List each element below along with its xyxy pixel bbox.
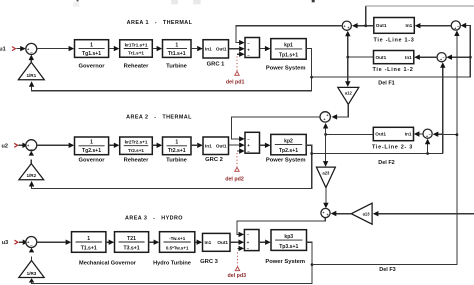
svg-text:Governor: Governor bbox=[78, 63, 105, 69]
gain a23 bbox=[316, 167, 335, 188]
GRC 2 subsystem block bbox=[203, 137, 229, 155]
svg-text:+: + bbox=[440, 58, 442, 62]
wire 1/R1 to sum S1 bbox=[30, 59, 32, 62]
wire GRC3 to sum3 (+) bbox=[230, 241, 239, 243]
svg-text:Power System: Power System bbox=[266, 158, 306, 164]
wire Turbine2 to GRC2 bbox=[191, 144, 197, 146]
svg-text:GRC 2: GRC 2 bbox=[205, 157, 223, 163]
svg-text:a23: a23 bbox=[322, 170, 330, 175]
svg-text:del pd3: del pd3 bbox=[228, 273, 247, 279]
wire sum T23 to Tie-Line 2-3 In1 bbox=[418, 133, 423, 135]
wire PS2 output down to frequency feedback bbox=[32, 145, 312, 188]
gain 1/R3 bbox=[19, 261, 44, 278]
svg-text:0.5*Tw.s+1: 0.5*Tw.s+1 bbox=[166, 246, 189, 251]
wire PS3 output down to frequency feedback bbox=[32, 242, 312, 283]
del pd3 annotation dotted line bbox=[237, 252, 239, 266]
svg-text:1/R3: 1/R3 bbox=[27, 271, 37, 276]
svg-text:Tg1.s+1: Tg1.s+1 bbox=[82, 51, 101, 57]
sum block SB1 bbox=[245, 38, 260, 58]
svg-text:T3.s+1: T3.s+1 bbox=[124, 246, 140, 252]
svg-text:a12: a12 bbox=[345, 91, 353, 96]
svg-text:kp2: kp2 bbox=[284, 138, 293, 144]
svg-text:Out1: Out1 bbox=[376, 55, 387, 60]
svg-text:u1: u1 bbox=[0, 47, 6, 53]
wire Tie-Line 1-3 Out1 to sum A1 bbox=[356, 25, 374, 27]
inport u3 bbox=[2, 240, 29, 247]
svg-text:−: − bbox=[443, 56, 445, 60]
wire Reheater1 to Turbine1 bbox=[152, 48, 157, 50]
load disturbance input wire 3 (-) bbox=[238, 247, 240, 249]
svg-text:T21: T21 bbox=[127, 236, 136, 242]
wire 1/R3 to sum S3 bbox=[31, 256, 33, 260]
power system block (kp3/Tp3.s+1) bbox=[271, 230, 307, 251]
wire HydroTurbine to GRC3 bbox=[195, 241, 197, 243]
hydro turbine block (-Tw.s+1/0.5*Tw.s+1) bbox=[160, 232, 195, 253]
wire GRC1 to sum1 (+) bbox=[229, 48, 240, 50]
svg-text:Del F3: Del F3 bbox=[379, 267, 396, 273]
sum T13 (tie-line 1-3) bbox=[451, 21, 460, 30]
tie-line 1-2 block bbox=[374, 51, 414, 64]
svg-text:Turbine: Turbine bbox=[166, 157, 188, 163]
svg-text:+: + bbox=[322, 211, 324, 215]
svg-text:+: + bbox=[326, 114, 328, 118]
wire Governor2 to Reheater2 bbox=[109, 144, 114, 146]
svg-text:del pd1: del pd1 bbox=[226, 79, 245, 85]
cropped caption speck 2 bbox=[171, 0, 178, 4]
wire S3 to MechGovernor bbox=[37, 241, 66, 243]
junction tie13 output tap bbox=[364, 24, 367, 27]
svg-text:Power System: Power System bbox=[265, 259, 305, 265]
wire deltaF3 right and up the right column bbox=[312, 34, 457, 265]
svg-text:Del F1: Del F1 bbox=[378, 81, 395, 87]
gain 1/R2 bbox=[19, 164, 44, 180]
svg-text:+: + bbox=[247, 143, 250, 148]
svg-text:Reheater: Reheater bbox=[124, 63, 150, 69]
svg-text:In1: In1 bbox=[205, 47, 212, 52]
inport u1 bbox=[0, 46, 26, 53]
wire deltaF2 up into sum T12 bottom bbox=[442, 66, 444, 153]
gain a12 bbox=[338, 87, 359, 104]
svg-text:Turbine: Turbine bbox=[166, 63, 188, 69]
svg-text:In1: In1 bbox=[205, 240, 212, 245]
svg-text:Governor: Governor bbox=[78, 157, 105, 163]
wire a23 down to sum A3 bbox=[325, 188, 327, 205]
sum block SB2 bbox=[245, 132, 260, 153]
power system block (kp2/Tp2.s+1) bbox=[271, 134, 306, 154]
svg-text:In1: In1 bbox=[405, 55, 412, 60]
svg-text:Tp2.s+1: Tp2.s+1 bbox=[279, 148, 298, 154]
hydro compensator block (T21/T3.s+1) bbox=[115, 232, 149, 253]
svg-text:1: 1 bbox=[90, 140, 93, 146]
mechanical governor block (1/T1.s+1) bbox=[72, 232, 106, 253]
governor block (1/Tg1.s+1) bbox=[75, 40, 109, 58]
wire tie12 branch down to gain a12 bbox=[347, 57, 349, 83]
inport u2 bbox=[1, 143, 28, 150]
reheater block (kr1Tr1.s+1/Tr1.s+1) bbox=[120, 40, 153, 57]
svg-text:−: − bbox=[457, 24, 459, 28]
svg-text:+: + bbox=[323, 118, 325, 122]
svg-text:Tt2.s+1: Tt2.s+1 bbox=[168, 148, 186, 154]
wire SB2 to Power System 2 bbox=[260, 144, 265, 146]
svg-text:AREA 1 - THERMAL: AREA 1 - THERMAL bbox=[127, 20, 193, 26]
junction tie12 branch bbox=[346, 56, 349, 59]
wire a13 to sum A3 bbox=[336, 213, 352, 215]
wire T21 to Hydro Turbine bbox=[149, 241, 154, 243]
sum block SB3 bbox=[244, 230, 259, 251]
junction tie23 branch bbox=[324, 133, 327, 136]
wire Tie-Line 2-3 Out1 to branch bbox=[326, 133, 374, 135]
svg-text:1: 1 bbox=[87, 236, 90, 242]
gain 1/R1 bbox=[18, 62, 44, 80]
junction deltaF2 branch bbox=[426, 152, 429, 155]
svg-text:1: 1 bbox=[175, 140, 178, 146]
svg-text:u2: u2 bbox=[1, 143, 7, 149]
wire MechGov to T21 block bbox=[106, 241, 109, 243]
cropped caption speck 4 bbox=[312, 0, 315, 2]
svg-text:In1: In1 bbox=[405, 132, 412, 137]
reheater block (kr2Tr2.s+1/Tr2.s+1) bbox=[120, 137, 153, 154]
del pd2 annotation dotted line bbox=[236, 153, 238, 167]
governor block (1/Tg2.s+1) bbox=[75, 137, 109, 155]
wire tie23 branch up into sum A2 bbox=[325, 127, 327, 135]
svg-text:Tr1.s+1: Tr1.s+1 bbox=[128, 51, 144, 56]
wire deltaF1 branch into sum T12 bbox=[451, 56, 470, 58]
svg-text:del pd2: del pd2 bbox=[225, 177, 244, 183]
svg-text:AREA 3 - HYDRO: AREA 3 - HYDRO bbox=[125, 216, 183, 222]
svg-text:kp1: kp1 bbox=[284, 43, 293, 49]
svg-text:Tp1.s+1: Tp1.s+1 bbox=[279, 53, 298, 59]
svg-text:GRC 1: GRC 1 bbox=[207, 61, 225, 67]
junction PS1 branch bbox=[310, 76, 313, 79]
sum A3 (ACE area3) bbox=[321, 208, 330, 217]
svg-text:Tg2.s+1: Tg2.s+1 bbox=[82, 148, 101, 154]
wire Reheater2 to Turbine2 bbox=[152, 144, 157, 146]
svg-text:1: 1 bbox=[90, 42, 93, 48]
wire tie12 signal up into sum A1 bbox=[347, 34, 349, 57]
tie-line 2-3 block bbox=[373, 127, 413, 140]
turbine block (1/Tt2.s+1) bbox=[163, 137, 192, 155]
svg-text:AREA 2 - THERMAL: AREA 2 - THERMAL bbox=[126, 114, 192, 120]
junction deltaF1 branch bbox=[469, 56, 472, 59]
junction PS2 branch bbox=[310, 152, 313, 155]
wire sum T13 to Tie-Line 1-3 In1 bbox=[420, 25, 452, 27]
svg-text:Tie-Line 2- 3: Tie-Line 2- 3 bbox=[372, 145, 413, 151]
svg-text:Mechanical Governor: Mechanical Governor bbox=[79, 260, 137, 266]
ACE2 wire from sum A2 into SB2 top (-) bbox=[231, 117, 320, 139]
svg-text:+: + bbox=[344, 25, 346, 29]
wire deltaF2 branch up into sum T23 bbox=[427, 143, 429, 154]
sum S1 bbox=[26, 43, 37, 54]
svg-text:1/R2: 1/R2 bbox=[26, 173, 36, 178]
wire S1 to Governor1 bbox=[37, 48, 69, 50]
sum A1 (ACE area1) bbox=[342, 21, 351, 30]
sum T12 (tie-line 1-2) bbox=[437, 53, 446, 62]
gain a13 bbox=[351, 203, 372, 224]
svg-text:kr1Tr1.s+1: kr1Tr1.s+1 bbox=[125, 42, 148, 47]
del pd1 annotation arrowhead bbox=[235, 71, 239, 75]
cropped caption speck 3 bbox=[193, 0, 201, 4]
svg-text:Power System: Power System bbox=[266, 66, 306, 72]
load disturbance input wire 2 (-) bbox=[237, 150, 240, 152]
wire Governor1 to Reheater1 bbox=[109, 48, 114, 50]
svg-text:kr2Tr2.s+1: kr2Tr2.s+1 bbox=[125, 140, 148, 145]
svg-text:1/R1: 1/R1 bbox=[26, 73, 36, 78]
junction PS3 branch bbox=[311, 263, 314, 266]
svg-text:Tr2.s+1: Tr2.s+1 bbox=[128, 148, 144, 153]
GRC 1 subsystem block bbox=[203, 40, 229, 58]
svg-text:+: + bbox=[426, 135, 428, 139]
svg-text:Tp3.s+1: Tp3.s+1 bbox=[279, 244, 298, 250]
svg-text:GRC 3: GRC 3 bbox=[200, 259, 218, 265]
svg-text:+: + bbox=[348, 26, 350, 30]
del pd3 annotation arrowhead bbox=[235, 267, 239, 271]
wire tap up to top edge bbox=[365, 6, 367, 26]
svg-text:Out1: Out1 bbox=[216, 47, 227, 52]
wire sum T12 to Tie-Line 1-2 In1 bbox=[419, 56, 437, 58]
wire 1/R2 to sum S2 bbox=[30, 160, 32, 164]
junction deltaF3 branch bbox=[456, 133, 459, 136]
power system block (kp1/Tp1.s+1) bbox=[271, 39, 306, 60]
del pd1 annotation dotted line bbox=[236, 56, 238, 70]
cropped caption speck 1 bbox=[77, 0, 79, 1]
svg-text:Out1: Out1 bbox=[376, 23, 387, 28]
svg-text:a13: a13 bbox=[363, 212, 371, 217]
wire GRC2 to sum2 (+) bbox=[229, 144, 240, 146]
wire tie23 branch down to gain a23 bbox=[325, 134, 327, 163]
svg-text:+: + bbox=[247, 240, 250, 245]
wire SB1 to Power System 1 bbox=[260, 48, 265, 50]
sum S3 bbox=[26, 237, 37, 248]
wire deltaF3 branch into sum T23 right bbox=[437, 133, 457, 136]
svg-text:+: + bbox=[454, 26, 456, 30]
wire deltaF1 to right column bbox=[312, 26, 471, 78]
svg-text:Del F2: Del F2 bbox=[378, 160, 395, 166]
del pd2 annotation arrowhead bbox=[235, 167, 239, 171]
svg-text:+: + bbox=[327, 213, 329, 217]
svg-text:Hydro Turbine: Hydro Turbine bbox=[153, 260, 191, 266]
svg-text:1: 1 bbox=[175, 42, 178, 48]
svg-text:Out1: Out1 bbox=[375, 132, 386, 137]
svg-text:Out1: Out1 bbox=[216, 143, 227, 148]
wire S2 to Governor2 bbox=[37, 144, 69, 146]
svg-text:−: − bbox=[429, 133, 431, 137]
svg-text:Reheater: Reheater bbox=[124, 157, 150, 163]
wire PS1 output down to frequency feedback bbox=[32, 49, 312, 91]
sum T23 (tie-line 2-3) bbox=[423, 129, 432, 138]
ACE1 wire from sum A1 into SB1 top (-) bbox=[236, 26, 342, 43]
wire Tie-Line 1-2 Out1 to branch bbox=[348, 56, 374, 58]
wire deltaF2 right along y=153.5 bbox=[312, 153, 443, 155]
turbine block (1/Tt1.s+1) bbox=[163, 40, 192, 58]
GRC 3 subsystem block bbox=[203, 233, 231, 251]
svg-text:Tie -Line 1-2: Tie -Line 1-2 bbox=[372, 67, 413, 73]
wire SB3 to Power System 3 bbox=[259, 241, 265, 243]
svg-text:kp3: kp3 bbox=[284, 234, 293, 240]
svg-text:Out1: Out1 bbox=[217, 240, 228, 245]
load disturbance input wire (-) bbox=[237, 53, 240, 55]
svg-text:-Tw.s+1: -Tw.s+1 bbox=[169, 236, 186, 241]
svg-text:Tie -Line 1-3: Tie -Line 1-3 bbox=[373, 37, 414, 43]
svg-text:In1: In1 bbox=[205, 143, 212, 148]
svg-text:Tt1.s+1: Tt1.s+1 bbox=[168, 51, 186, 57]
wire Turbine1 to GRC1 bbox=[191, 48, 197, 50]
ACE3 wire from sum A3 into SB3 top (-) bbox=[237, 218, 325, 235]
sum S2 bbox=[26, 140, 37, 151]
svg-text:T1.s+1: T1.s+1 bbox=[81, 246, 97, 252]
wire a12 to sum A2 bbox=[337, 104, 348, 117]
svg-text:u3: u3 bbox=[2, 240, 8, 246]
svg-text:In1: In1 bbox=[406, 23, 413, 28]
sum A2 (ACE area2) bbox=[320, 112, 330, 122]
wire right edge into gain a13 bbox=[378, 213, 474, 215]
tie-line 1-3 block bbox=[374, 18, 415, 34]
